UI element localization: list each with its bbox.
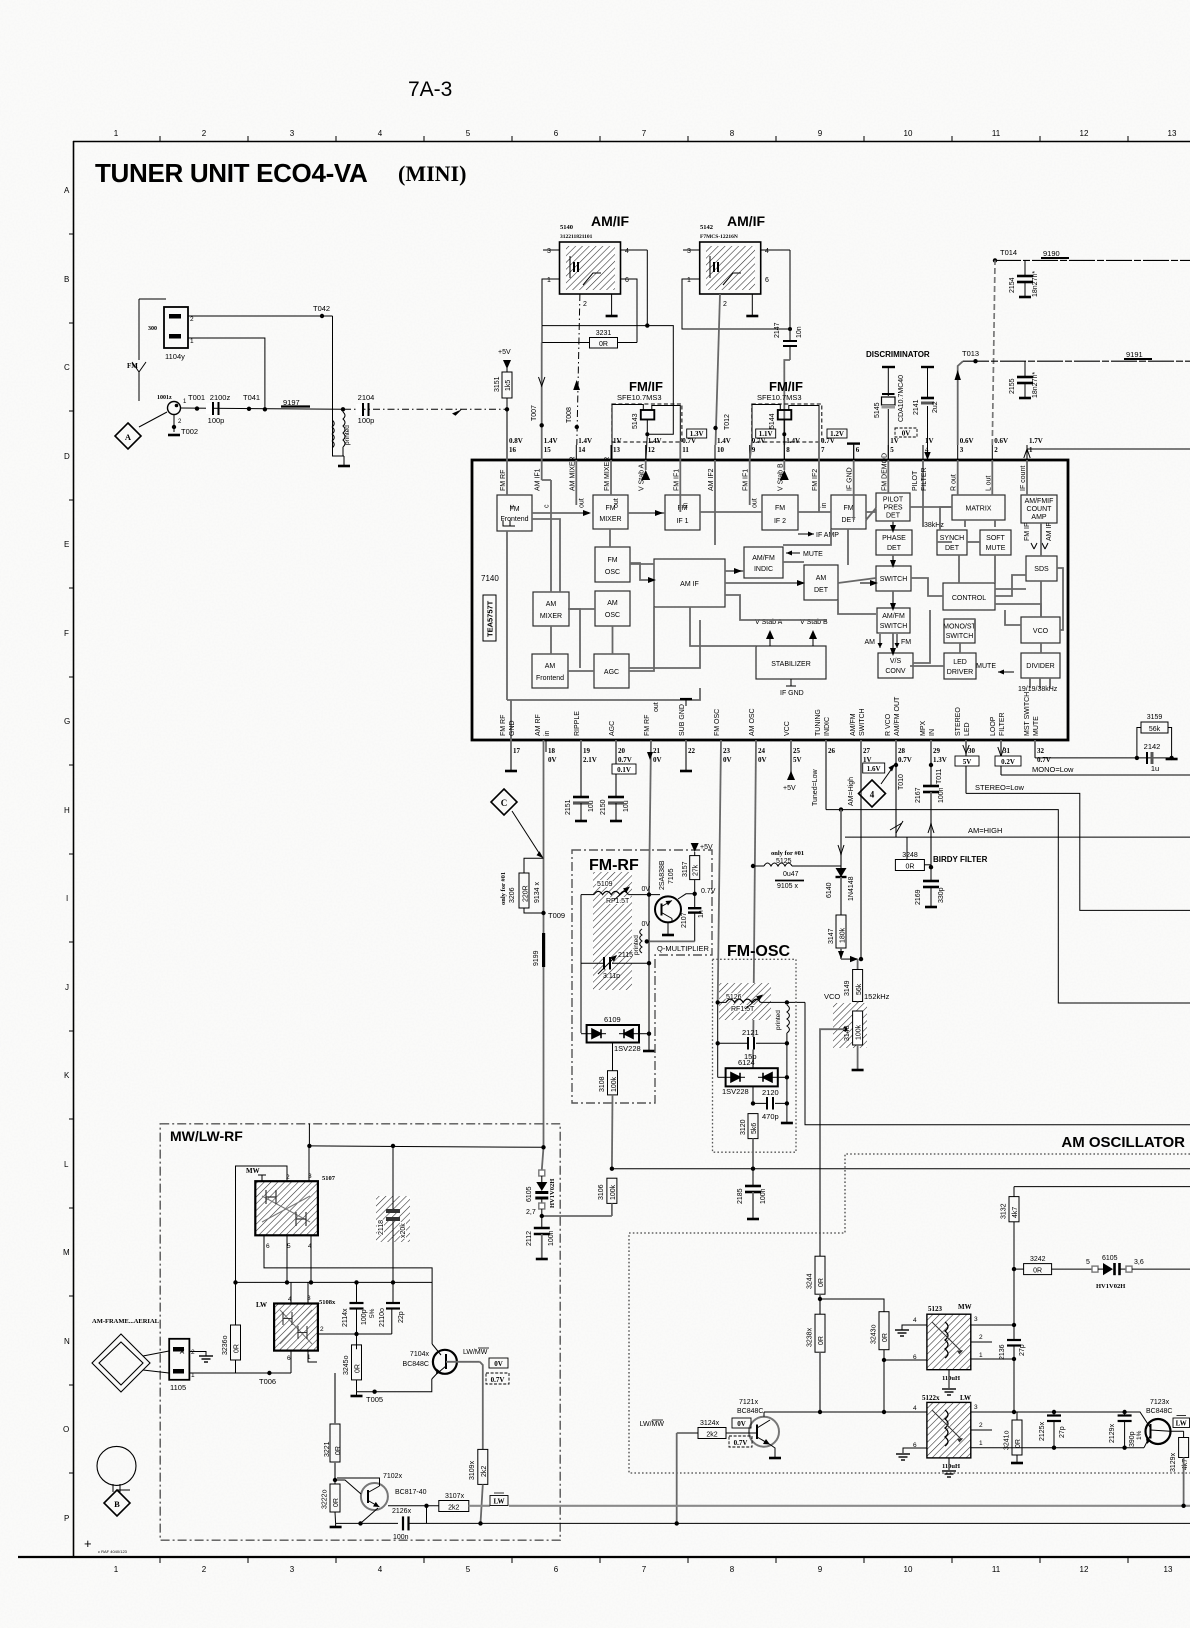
svg-text:6105: 6105 bbox=[1102, 1255, 1118, 1262]
svg-text:FM DEMOD: FM DEMOD bbox=[881, 453, 888, 491]
svg-text:2: 2 bbox=[979, 1334, 983, 1341]
svg-text:5: 5 bbox=[1086, 1259, 1090, 1266]
svg-text:PILOT: PILOT bbox=[912, 470, 919, 491]
svg-text:1105: 1105 bbox=[170, 1383, 186, 1392]
voltage box 0V dashed bbox=[895, 428, 917, 438]
block FM OSC bbox=[595, 547, 630, 582]
svg-text:T007: T007 bbox=[531, 405, 538, 421]
svg-text:2104: 2104 bbox=[358, 393, 375, 402]
svg-text:3231: 3231 bbox=[596, 330, 612, 337]
wire 5142 pin2 down to pin10 bbox=[716, 294, 721, 445]
svg-text:AM/IF: AM/IF bbox=[591, 213, 630, 229]
inductor 5125 only for #01 bbox=[751, 850, 841, 890]
svg-text:MW: MW bbox=[246, 1167, 260, 1175]
svg-text:18n27n*: 18n27n* bbox=[1032, 271, 1039, 297]
ruler bottom bbox=[160, 1557, 1128, 1563]
printed cap 2118 bbox=[376, 1144, 410, 1283]
svg-text:MONO=Low: MONO=Low bbox=[1032, 765, 1074, 774]
node T042 bbox=[313, 304, 330, 318]
printed coil bbox=[332, 409, 351, 456]
horizontal wire 1282 bbox=[234, 1281, 432, 1283]
FM-RF dashdot outline bbox=[572, 850, 712, 1103]
svg-text:6140: 6140 bbox=[826, 882, 833, 898]
svg-text:7: 7 bbox=[821, 446, 825, 454]
svg-text:3157: 3157 bbox=[682, 861, 689, 877]
svg-text:0V: 0V bbox=[758, 756, 767, 764]
svg-text:0R: 0R bbox=[234, 1344, 241, 1353]
svg-text:Frontend: Frontend bbox=[500, 516, 528, 523]
svg-text:14: 14 bbox=[578, 446, 586, 454]
block AM/FM SWITCH bbox=[877, 608, 910, 633]
diamond A bbox=[115, 423, 141, 449]
resistor 3244 0R bbox=[807, 1256, 885, 1314]
svg-text:25: 25 bbox=[793, 747, 801, 755]
coil 5109 hatched bbox=[593, 872, 632, 990]
svg-text:3236o: 3236o bbox=[222, 1335, 229, 1355]
svg-text:3241o: 3241o bbox=[1004, 1430, 1011, 1450]
svg-text:TUNER UNIT ECO4-VA: TUNER UNIT ECO4-VA bbox=[95, 158, 368, 188]
pin28 wire bbox=[890, 740, 905, 837]
svg-text:11: 11 bbox=[682, 446, 689, 454]
connector 1105 bbox=[169, 1339, 195, 1392]
svg-text:AGC: AGC bbox=[604, 669, 619, 676]
svg-text:5: 5 bbox=[466, 129, 471, 138]
svg-text:3151: 3151 bbox=[494, 376, 501, 392]
svg-text:R out: R out bbox=[951, 474, 958, 491]
resistor 3106 100k bbox=[542, 1178, 617, 1216]
svg-text:100n: 100n bbox=[760, 1188, 767, 1204]
V Stab A triangle above stabilizer bbox=[755, 619, 783, 646]
diode 6140 1N4148 bbox=[826, 807, 855, 915]
svg-text:1.3V: 1.3V bbox=[933, 756, 947, 764]
capacitor 2104 100p bbox=[356, 393, 374, 425]
svg-text:13: 13 bbox=[1168, 129, 1177, 138]
svg-text:3238x: 3238x bbox=[807, 1327, 814, 1347]
svg-text:FM-RF: FM-RF bbox=[589, 857, 639, 874]
transistor 7105 2SA838B bbox=[641, 860, 694, 935]
svg-text:28: 28 bbox=[898, 747, 906, 755]
svg-text:6109: 6109 bbox=[604, 1015, 621, 1024]
svg-text:56k: 56k bbox=[1149, 726, 1161, 733]
wire coil row bbox=[581, 894, 660, 896]
wire pin16 from 9197 bbox=[506, 409, 508, 460]
svg-text:M: M bbox=[63, 1248, 70, 1257]
svg-text:1.4V: 1.4V bbox=[786, 437, 800, 445]
svg-text:AM/FM: AM/FM bbox=[752, 555, 775, 562]
svg-text:MATRIX: MATRIX bbox=[966, 506, 992, 513]
diamond C bbox=[491, 789, 517, 815]
arrow on 9197 wire bbox=[452, 409, 462, 416]
svg-text:SFE10.7MS3: SFE10.7MS3 bbox=[757, 393, 802, 402]
svg-text:2136: 2136 bbox=[999, 1344, 1006, 1360]
svg-text:16: 16 bbox=[509, 446, 517, 454]
pin20 wire and capacitor 2150 10u bbox=[600, 740, 630, 821]
resistor 3222o 0R bbox=[322, 1478, 341, 1524]
svg-text:AM/FM: AM/FM bbox=[882, 613, 905, 620]
svg-text:K: K bbox=[64, 1071, 70, 1080]
svg-text:7123x: 7123x bbox=[1150, 1399, 1170, 1406]
diagonal from A to jack bbox=[139, 412, 167, 427]
svg-text:2k2: 2k2 bbox=[706, 1431, 717, 1438]
svg-text:312211821101: 312211821101 bbox=[560, 234, 593, 240]
svg-text:2151: 2151 bbox=[565, 799, 572, 815]
svg-text:3107x: 3107x bbox=[445, 1493, 465, 1500]
wire 5140 pin2 to pin14 bbox=[577, 294, 580, 445]
svg-text:3149: 3149 bbox=[844, 980, 851, 996]
block AM MIXER bbox=[533, 592, 569, 626]
svg-text:18n27n*: 18n27n* bbox=[1032, 372, 1039, 398]
svg-text:V Stab A: V Stab A bbox=[639, 463, 646, 491]
svg-text:1V: 1V bbox=[925, 437, 934, 445]
svg-text:STEREO=Low: STEREO=Low bbox=[975, 783, 1025, 792]
svg-text:in: in bbox=[682, 502, 689, 508]
VCO 152kHz labels bbox=[824, 992, 890, 1001]
capacitor 2126x 100n bbox=[330, 1508, 430, 1541]
svg-text:2: 2 bbox=[202, 1565, 207, 1574]
left vertical bbox=[580, 895, 582, 1033]
svg-text:0R: 0R bbox=[818, 1336, 825, 1345]
left vertical bbox=[717, 1002, 719, 1077]
svg-text:2150: 2150 bbox=[600, 799, 607, 815]
wire down from T042 bbox=[333, 316, 345, 456]
svg-text:0V: 0V bbox=[548, 756, 557, 764]
svg-text:FM: FM bbox=[901, 639, 911, 646]
svg-text:IF 2: IF 2 bbox=[774, 518, 786, 525]
svg-text:9199: 9199 bbox=[533, 950, 540, 966]
svg-text:SDS: SDS bbox=[1034, 566, 1049, 573]
svg-text:110uH: 110uH bbox=[942, 1375, 960, 1382]
coil 5123 MW bbox=[913, 1303, 983, 1382]
svg-text:6: 6 bbox=[554, 129, 559, 138]
svg-text:A: A bbox=[64, 186, 70, 195]
svg-text:FM RF: FM RF bbox=[500, 470, 507, 491]
svg-text:T008: T008 bbox=[566, 407, 573, 423]
svg-text:SWITCH: SWITCH bbox=[859, 708, 866, 736]
svg-text:2125x: 2125x bbox=[1039, 1421, 1046, 1441]
FM antenna bbox=[127, 362, 146, 401]
svg-text:10: 10 bbox=[904, 129, 913, 138]
svg-text:L out: L out bbox=[985, 476, 992, 491]
block VCO bbox=[1021, 617, 1060, 643]
FM RF GND tie pin17 bbox=[503, 520, 515, 526]
bottom buses bbox=[509, 1505, 1190, 1507]
svg-text:56k: 56k bbox=[856, 983, 863, 995]
voltage box 1.2V bbox=[827, 429, 847, 438]
junction line under 5140 bbox=[542, 325, 647, 327]
filter 5145 CDA10.7MC40 bbox=[874, 367, 905, 460]
resistor 3238x 0R bbox=[807, 1314, 826, 1412]
ground under 5142 bbox=[746, 294, 758, 316]
svg-text:3243o: 3243o bbox=[871, 1324, 878, 1344]
block STABILIZER bbox=[756, 646, 826, 679]
resistor 3241o 0R bbox=[1004, 1412, 1024, 1463]
svg-text:2: 2 bbox=[723, 301, 727, 308]
AM FRAME AERIAL bbox=[92, 1318, 169, 1392]
svg-text:FM RF: FM RF bbox=[644, 715, 651, 736]
svg-text:4k7: 4k7 bbox=[1012, 1207, 1019, 1218]
capacitor 2185 100n bbox=[737, 1169, 767, 1219]
svg-text:V/S: V/S bbox=[890, 658, 902, 665]
svg-text:13: 13 bbox=[613, 446, 621, 454]
wire y1124.7 bbox=[805, 1002, 1190, 1124]
MW/LW-RF box outline bbox=[160, 1124, 560, 1540]
diamond 4 bbox=[859, 780, 886, 807]
svg-text:2u2: 2u2 bbox=[932, 401, 939, 413]
svg-text:1n: 1n bbox=[698, 910, 705, 918]
diagonal from C to pin18 wire bbox=[512, 811, 544, 858]
svg-text:in: in bbox=[821, 502, 828, 508]
svg-text:L: L bbox=[64, 1160, 69, 1169]
svg-text:CONTROL: CONTROL bbox=[952, 595, 986, 602]
LW/MW label bbox=[463, 1348, 489, 1356]
svg-text:printed: printed bbox=[775, 1010, 782, 1030]
svg-text:3120: 3120 bbox=[740, 1119, 747, 1135]
capacitor 2141 2u2 bbox=[913, 367, 939, 460]
svg-text:N: N bbox=[64, 1337, 70, 1346]
svg-text:2142: 2142 bbox=[1144, 742, 1161, 751]
svg-text:RF1.5T: RF1.5T bbox=[606, 898, 630, 905]
wire pin1 IF count out right bbox=[1024, 449, 1190, 460]
block CONTROL bbox=[943, 583, 995, 610]
block DIVIDER bbox=[1021, 653, 1060, 678]
node T009 bbox=[541, 911, 565, 920]
svg-text:BC848C: BC848C bbox=[737, 1408, 763, 1415]
wire 5107 bottom pins bbox=[264, 1235, 432, 1344]
svg-text:3106: 3106 bbox=[598, 1184, 605, 1200]
svg-text:3242: 3242 bbox=[1030, 1256, 1046, 1263]
svg-text:1.2V: 1.2V bbox=[830, 430, 844, 438]
svg-text:0R: 0R bbox=[335, 1446, 342, 1455]
resistor 3206 220R only for #01 bbox=[500, 858, 544, 913]
svg-text:VCC: VCC bbox=[784, 721, 791, 736]
svg-text:2: 2 bbox=[979, 1422, 983, 1429]
node T014 bbox=[993, 248, 1017, 263]
svg-text:10n: 10n bbox=[796, 326, 803, 338]
arrow on pin14 wire bbox=[573, 380, 580, 390]
svg-text:3: 3 bbox=[290, 1565, 295, 1574]
svg-text:29: 29 bbox=[933, 747, 941, 755]
svg-text:3: 3 bbox=[960, 446, 964, 454]
varicap 6124 1SV228 bbox=[718, 1058, 789, 1103]
capacitor 2121 15p bbox=[716, 1028, 790, 1061]
svg-text:FM IF2: FM IF2 bbox=[812, 469, 819, 491]
svg-text:SOFT: SOFT bbox=[986, 535, 1005, 542]
svg-text:2: 2 bbox=[190, 316, 194, 323]
svg-text:7140: 7140 bbox=[481, 574, 499, 583]
svg-text:9190: 9190 bbox=[1043, 249, 1060, 258]
wire 9191 bbox=[963, 350, 1190, 361]
svg-text:100p: 100p bbox=[208, 416, 225, 425]
pin29 wire with 2167 bbox=[915, 740, 945, 907]
wire 1105 pin1 to T006 and 5108x bbox=[189, 1372, 291, 1374]
svg-text:38kHz: 38kHz bbox=[924, 522, 944, 529]
svg-text:OSC: OSC bbox=[605, 612, 620, 619]
coil 5108x LW bbox=[256, 1295, 336, 1362]
svg-text:LW: LW bbox=[960, 1394, 971, 1402]
divider pin stubs bbox=[1030, 678, 1050, 688]
diamond B bbox=[104, 1490, 130, 1516]
block MONO/ST SWITCH bbox=[943, 619, 976, 643]
block AM OSC bbox=[595, 591, 630, 626]
svg-text:0.6V: 0.6V bbox=[994, 437, 1008, 445]
svg-text:2115: 2115 bbox=[618, 952, 633, 959]
svg-text:2k2: 2k2 bbox=[448, 1504, 459, 1511]
svg-text:AM: AM bbox=[546, 601, 557, 608]
svg-text:T010: T010 bbox=[898, 774, 905, 790]
ground under 5140 bbox=[606, 294, 618, 316]
svg-text:5V: 5V bbox=[963, 758, 972, 766]
svg-text:1104y: 1104y bbox=[165, 352, 185, 361]
IC 7140 body bbox=[472, 460, 1068, 740]
svg-text:+5V: +5V bbox=[498, 349, 511, 356]
diagonal arrow from diamond to T010 bbox=[881, 764, 895, 784]
5122x wires bbox=[764, 1410, 1144, 1477]
resistor 3147 180k bbox=[828, 915, 863, 962]
svg-text:6124: 6124 bbox=[738, 1058, 755, 1067]
transistor 7121x BC848C bbox=[737, 1399, 781, 1458]
svg-text:PRES: PRES bbox=[883, 505, 902, 512]
svg-text:7121x: 7121x bbox=[739, 1399, 759, 1406]
svg-text:9134 x: 9134 x bbox=[534, 881, 541, 903]
svg-text:SWITCH: SWITCH bbox=[880, 576, 908, 583]
svg-text:2110o: 2110o bbox=[379, 1308, 386, 1327]
svg-text:0R: 0R bbox=[1015, 1439, 1022, 1448]
svg-text:1%: 1% bbox=[1136, 1430, 1143, 1440]
svg-text:0.7V: 0.7V bbox=[701, 888, 716, 895]
svg-text:5109: 5109 bbox=[597, 881, 613, 888]
resistor 3245o 0R bbox=[343, 1345, 362, 1392]
svg-text:2154: 2154 bbox=[1009, 277, 1016, 293]
filter 5140 wires bbox=[543, 249, 560, 251]
svg-text:3: 3 bbox=[974, 1316, 978, 1323]
svg-text:out: out bbox=[653, 702, 660, 712]
svg-text:0V: 0V bbox=[653, 756, 662, 764]
svg-text:1SV228: 1SV228 bbox=[722, 1087, 749, 1096]
svg-text:T012: T012 bbox=[724, 414, 731, 430]
FM IF / AM IF arrows under count amp bbox=[1024, 522, 1053, 549]
pin19 wire and capacitor 2151 10u bbox=[565, 740, 595, 821]
svg-text:AM OSCILLATOR: AM OSCILLATOR bbox=[1061, 1134, 1185, 1151]
svg-text:23: 23 bbox=[723, 747, 731, 755]
svg-text:T013: T013 bbox=[962, 349, 979, 358]
svg-text:LW/MW: LW/MW bbox=[463, 1349, 488, 1356]
wire 2147 to pin8 bbox=[784, 360, 790, 445]
node T012 bbox=[713, 414, 731, 430]
svg-text:7102x: 7102x bbox=[383, 1473, 403, 1480]
wire pin3 up to 9191 bbox=[958, 361, 963, 445]
svg-text:AM IF: AM IF bbox=[1046, 522, 1053, 541]
svg-text:DET: DET bbox=[945, 545, 960, 552]
svg-text:FM/IF: FM/IF bbox=[769, 379, 803, 394]
svg-text:4: 4 bbox=[378, 1565, 383, 1574]
svg-text:AM/FM OUT: AM/FM OUT bbox=[894, 696, 901, 736]
svg-text:MUTE: MUTE bbox=[1033, 716, 1040, 736]
svg-text:RF1.5T: RF1.5T bbox=[731, 1006, 755, 1013]
svg-text:100p: 100p bbox=[361, 1309, 368, 1325]
svg-text:1.6V: 1.6V bbox=[867, 765, 881, 773]
svg-text:152kHz: 152kHz bbox=[864, 992, 890, 1001]
printed resistor 3148 100k bbox=[820, 1003, 867, 1256]
svg-text:2: 2 bbox=[202, 129, 207, 138]
svg-text:A: A bbox=[125, 432, 132, 442]
svg-text:AM-FRAME...AERIAL: AM-FRAME...AERIAL bbox=[92, 1318, 160, 1325]
coil 5122x LW bbox=[913, 1394, 983, 1470]
svg-text:SWITCH: SWITCH bbox=[880, 623, 908, 630]
voltage box 0.1V pin20 bbox=[612, 764, 636, 774]
svg-text:AM RF: AM RF bbox=[535, 714, 542, 736]
row letters bbox=[63, 186, 73, 1523]
svg-text:4: 4 bbox=[625, 248, 629, 255]
svg-text:FM: FM bbox=[607, 557, 617, 564]
svg-text:5: 5 bbox=[466, 1565, 471, 1574]
svg-text:4: 4 bbox=[870, 790, 875, 800]
svg-text:1V: 1V bbox=[890, 437, 899, 445]
svg-text:6105: 6105 bbox=[526, 1186, 533, 1202]
svg-text:10: 10 bbox=[717, 446, 725, 454]
svg-text:INDIC: INDIC bbox=[824, 717, 831, 736]
svg-text:4: 4 bbox=[765, 248, 769, 255]
svg-text:2167: 2167 bbox=[915, 787, 922, 803]
svg-text:AM OSC: AM OSC bbox=[749, 708, 756, 736]
svg-text:18: 18 bbox=[548, 747, 556, 755]
svg-text:1N4148: 1N4148 bbox=[848, 876, 855, 901]
svg-text:J: J bbox=[65, 983, 69, 992]
svg-text:22p: 22p bbox=[398, 1311, 405, 1323]
svg-text:11: 11 bbox=[992, 129, 1001, 138]
svg-text:LW/MW: LW/MW bbox=[640, 1421, 665, 1428]
coil 5107 MW bbox=[246, 1167, 336, 1250]
svg-text:6: 6 bbox=[287, 1355, 291, 1362]
resistor 3221 0R bbox=[324, 1373, 342, 1480]
svg-text:9: 9 bbox=[752, 446, 756, 454]
svg-text:2141: 2141 bbox=[913, 399, 920, 415]
svg-text:0.1V: 0.1V bbox=[617, 766, 631, 774]
svg-text:LW: LW bbox=[493, 1498, 504, 1506]
svg-text:4: 4 bbox=[913, 1317, 917, 1324]
svg-text:5122x: 5122x bbox=[922, 1394, 940, 1402]
svg-text:BC848C: BC848C bbox=[1146, 1408, 1172, 1415]
wire LWMW down to bus bbox=[676, 1433, 678, 1523]
IF GND below stabilizer bbox=[780, 679, 804, 697]
svg-text:IF count: IF count bbox=[1020, 466, 1027, 491]
svg-text:26: 26 bbox=[828, 747, 836, 755]
svg-text:H: H bbox=[64, 806, 70, 815]
svg-text:LOOP: LOOP bbox=[990, 716, 997, 736]
svg-text:3245o: 3245o bbox=[343, 1355, 350, 1375]
collector wire right to 3109x bbox=[480, 1362, 483, 1450]
capacitor 2129x 390p 1% bbox=[1109, 1410, 1143, 1450]
svg-text:24: 24 bbox=[758, 747, 766, 755]
node T005 bbox=[351, 1379, 432, 1404]
svg-text:FILTER: FILTER bbox=[999, 712, 1006, 736]
AM FM arrows under AM/FM SWITCH bbox=[865, 634, 912, 648]
block FM IF 1 bbox=[665, 495, 700, 530]
svg-text:11: 11 bbox=[992, 1565, 1001, 1574]
svg-text:MW/LW-RF: MW/LW-RF bbox=[170, 1128, 243, 1144]
resistor 3132 4k7 bbox=[1001, 1187, 1020, 1340]
svg-text:17: 17 bbox=[513, 747, 521, 755]
svg-text:2: 2 bbox=[583, 301, 587, 308]
svg-text:AM MIXER: AM MIXER bbox=[569, 456, 576, 491]
block FM Frontend bbox=[497, 495, 532, 531]
block PHASE DET bbox=[876, 530, 912, 555]
resistor 3242 0R bbox=[1014, 1256, 1092, 1275]
svg-text:c: c bbox=[544, 504, 551, 508]
svg-text:20: 20 bbox=[618, 747, 626, 755]
printed vertical coil bbox=[775, 1005, 789, 1033]
MUTE arrow to AM/FM INDIC bbox=[786, 551, 823, 559]
pin21 long wire down through FM-RF bbox=[643, 740, 655, 1051]
